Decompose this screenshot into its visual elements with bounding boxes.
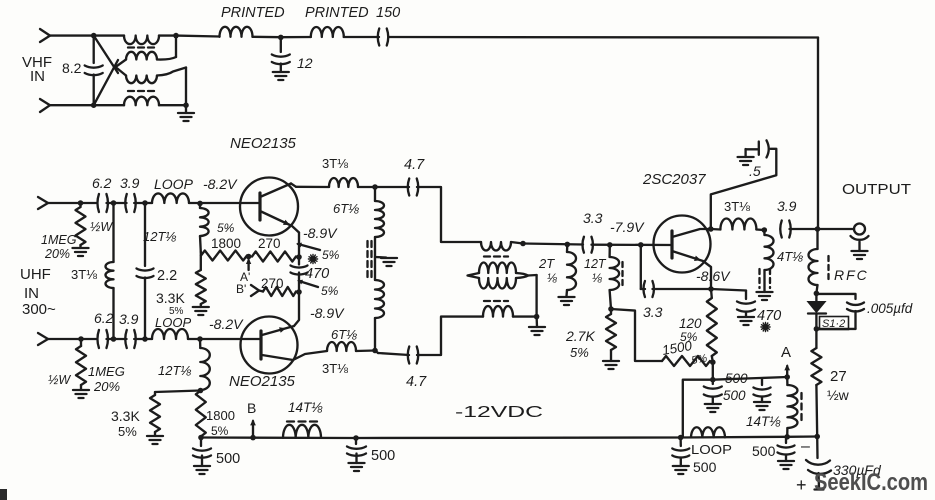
capacitor 500 right [785,437,787,443]
svg-text:500: 500 [216,451,240,467]
wire 3.9 to LOOP lower [134,338,152,340]
svg-text:3.9: 3.9 [120,175,140,191]
svg-text:-8.2V: -8.2V [203,176,238,192]
wire top input lower lead [50,104,124,106]
svg-text:NEO2135: NEO2135 [230,135,297,152]
capacitor 470 emitter rail [291,266,308,268]
svg-text:12T: 12T [584,257,607,271]
capacitor 3.9 series lower [125,330,127,348]
svg-text:6.2: 6.2 [94,310,114,326]
wire UHF upper lead [48,202,96,204]
svg-text:470: 470 [305,266,329,282]
ground 500 loop [673,466,689,474]
core dashes balun bottom [128,90,154,92]
terminal UHF input lower [38,333,48,345]
wire right vertical drop to output node [817,38,819,230]
wire top line to printed inductor [176,34,220,37]
core dashes 6T pair [366,241,368,278]
svg-text:-8.6V: -8.6V [696,268,731,284]
capacitor 3.3 series interstage [582,237,584,253]
inductor LOOP lower [152,329,188,339]
svg-text:⅛: ⅛ [547,271,557,285]
inductor balun middle winding pair T1 [116,60,127,76]
wire balun cross diagonal 1 [94,36,118,73]
ground R 1MEG upper [79,245,81,248]
wire T2 bottom right [513,315,537,317]
svg-text:12T⅛: 12T⅛ [143,229,176,244]
svg-text:12T⅛: 12T⅛ [158,363,191,378]
wire T2 top right [511,242,523,244]
svg-text:LOOP: LOOP [154,176,194,192]
resistor 27 1/2w [815,329,817,348]
svg-text:PRINTED: PRINTED [221,5,285,21]
asterisk output [761,322,770,331]
node junction 330 top [814,434,820,440]
wire .5 cap slant to collector [711,149,777,229]
svg-text:270: 270 [261,276,284,291]
svg-text:3T⅛: 3T⅛ [322,361,348,376]
svg-text:S1·2: S1·2 [822,318,845,330]
wire Q1 emitter rail upper [298,233,300,258]
svg-text:IN: IN [30,68,45,85]
node junction 3T1/8 bottom [111,336,117,342]
svg-text:1MEG: 1MEG [88,364,125,379]
node junction diode top [814,291,820,297]
inductor 3T1/8 output [711,228,721,231]
ground 2T1/8 [565,290,568,296]
svg-text:.005µfd: .005µfd [867,301,913,316]
wire 3.9 to output node [790,228,855,230]
node junction emitter rail / 270 top [296,254,302,260]
resistor 1800 feedback upper [201,251,247,261]
wire top input upper lead [50,34,124,36]
ground cap 12 [273,72,289,80]
inductor T2 middle winding pair [468,273,480,278]
node junction lower out [372,348,378,354]
wire 4.7 lower to T2 [417,317,483,355]
node junction bottom 500 mid [353,435,359,441]
terminal VHF input lower [40,99,50,112]
resistor 2.7K [610,309,612,314]
svg-text:20%: 20% [44,247,70,261]
inductor 6T1/8 upper [374,187,376,201]
wire 6T mid rail [374,237,376,280]
svg-text:-8.2V: -8.2V [209,316,244,332]
test point A arrow [786,366,788,376]
svg-text:1800: 1800 [211,236,241,251]
svg-text:5%: 5% [217,221,235,235]
wire 4.7 upper to T2 [417,187,481,242]
node junction base feedback [638,242,644,248]
svg-text:150: 150 [376,5,400,21]
svg-text:300~: 300~ [22,301,56,318]
ground 4T1/8 [757,292,773,300]
svg-text:2SC2037: 2SC2037 [642,171,706,188]
inductor 2T1/8 [566,244,569,252]
capacitor 330uFd electrolytic [816,437,819,459]
svg-text:14T⅛: 14T⅛ [288,400,323,415]
resistor 3.3K lower [154,392,156,395]
svg-text:120: 120 [679,316,702,331]
wire 6.2-3.9 lower [107,338,127,340]
node junction 12T1/8 lower tap [197,336,203,342]
ground 500 bottom mid [349,463,365,471]
svg-text:3T⅛: 3T⅛ [724,199,750,214]
wire to cap pair-2 and A node [713,377,787,380]
ground 2.7K [610,350,612,361]
wire balun top-right [159,34,176,36]
capacitor 500 pair-1 [712,380,714,384]
svg-text:500: 500 [371,448,395,464]
svg-text:470: 470 [757,308,781,324]
inductor 12T1/8 output stage [608,245,611,257]
node junction 12T bottom [198,388,204,394]
core dashes 12T1/8 out [621,262,623,288]
capacitor 3.9 output [780,221,782,238]
svg-text:2T: 2T [538,256,555,271]
resistor 1800 lower [196,391,206,437]
inductor printed line 2 [311,27,344,37]
svg-text:20%: 20% [93,379,120,394]
node junction 12T1/8 upper tap [197,201,203,207]
svg-text:6T⅛: 6T⅛ [333,201,359,216]
wire loop to Q1 base [189,202,259,204]
svg-text:2.2: 2.2 [157,268,177,284]
wire coil to node [358,186,375,188]
svg-text:NEO2135: NEO2135 [229,373,296,390]
core dashes 14T1/8 right [800,393,802,422]
core dashes T2 bottom [484,300,508,302]
core dashes 4T1/8 [758,269,760,288]
svg-text:4T⅛: 4T⅛ [777,249,803,264]
capacitor 3.3 feedback [640,245,642,289]
svg-text:-8.9V: -8.9V [303,225,338,241]
svg-text:500: 500 [752,443,776,459]
capacitor .5 trimmer [738,157,754,165]
wire Q1 collector line [296,186,329,189]
capacitor 3.9 series upper [125,194,127,212]
svg-text:4.7: 4.7 [406,374,427,390]
node junction emitter rail / 270 bottom [296,289,302,295]
svg-text:LOOP: LOOP [155,315,191,330]
wire 3.9 to LOOP coil [134,202,152,204]
capacitor 8.2 input shunt [93,36,95,63]
capacitor 6.2 series upper [97,194,99,212]
svg-text:4.7: 4.7 [404,157,425,173]
inductor balun top winding [124,36,159,45]
transistor Q1 NEO2135 [240,178,298,236]
node junction balun ground [183,102,189,108]
svg-text:27: 27 [830,368,847,385]
resistor 1MEG 20% lower [80,339,82,346]
wire 1500 node drop [712,362,714,380]
svg-text:3.3: 3.3 [643,304,663,320]
wire UHF lower lead [48,338,96,340]
capacitor 500 loop node [679,438,682,447]
wire to 3.3K lower [155,391,201,393]
wire 12T to 2.7K node [610,290,611,309]
node junction bottom rail A [784,434,790,440]
inductor printed line 1 [220,27,253,37]
resistor 270 upper [252,252,296,262]
terminal OUTPUT [854,224,865,235]
svg-text:1800: 1800 [206,408,235,423]
wire T2 secondary drop [535,275,537,317]
inductor T2 bottom winding [483,306,513,317]
node junction T2 out [520,241,526,247]
node junction 4T1/8 [762,227,768,233]
node junction output rail [815,226,821,232]
core dashes RFC [827,256,829,281]
node junction R2 top [78,336,84,342]
resistor 120 5% [710,289,713,298]
wire balun bottom-right [159,104,186,106]
ground balun [185,105,187,113]
inductor LOOP upper [152,193,189,203]
wire to cap 150 [344,36,379,38]
node junction Q3 emitter [708,286,714,292]
wire lower coil to node [356,349,375,352]
wire bottom rail [201,436,681,439]
svg-text:500: 500 [693,459,717,475]
svg-text:5%: 5% [321,284,339,298]
inductor T2 top winding [481,242,511,251]
svg-text:3.3K: 3.3K [156,290,185,306]
wire node12 to printed inductor 2 [281,36,311,39]
node junction 2.7K [608,306,614,312]
transistor Q3 2SC2037 [654,216,711,273]
svg-text:UHF: UHF [20,266,51,283]
svg-text:B': B' [236,282,246,296]
capacitor 12 shunt [280,37,282,52]
svg-text:-12VDC: -12VDC [455,404,543,421]
node junction lower input [91,102,97,108]
ground 3.3K lower [154,432,156,436]
box S1-2 [820,317,849,330]
wire left drop to bottom rail [683,380,713,438]
node junction upper out [372,184,378,190]
node junction 12T1/8 out tap [607,242,613,248]
svg-text:+: + [796,475,807,495]
node junction diode bottom [814,326,820,332]
inductor 3T1/8 upper out [329,178,358,187]
inductor LOOP bottom right [691,427,725,437]
inductor 6T1/8 lower [375,280,384,318]
svg-text:½W: ½W [48,373,71,387]
test point B arrow [250,435,256,441]
svg-text:500: 500 [723,388,746,403]
test point A' arrow [247,260,249,270]
wire balun ground drop [185,68,187,106]
node junction 2.2 top [142,200,148,206]
inductor 14T1/8 bottom [283,425,321,438]
capacitor 150 series [378,29,380,46]
core dashes T2 top [484,255,508,257]
pointer arrow 5% lower [299,281,318,287]
inductor 12T1/8 upper stage [199,203,201,208]
inductor balun bottom winding [124,97,159,106]
ground 500 pair-2 [754,402,770,410]
node junction bottom rail left [198,435,204,441]
svg-text:3.3: 3.3 [583,210,603,226]
capacitor 4.7 upper [375,186,409,188]
svg-text:3.9: 3.9 [119,311,139,327]
capacitor 6.2 series lower [97,330,99,348]
resistor 1MEG 20% upper [79,203,81,207]
core dashes balun top [128,46,154,48]
inductor 14T1/8 right [786,377,789,385]
svg-text:3.9: 3.9 [777,198,797,214]
resistor 270 lower [259,291,263,292]
wire 6.2 to 3.9 [107,202,127,204]
capacitor 470 output emitter [711,289,746,291]
ground T2 [535,317,538,327]
wire loop to Q2 base [188,338,260,340]
node junction 500 pair [710,377,716,383]
wire 3.3 to base node [592,244,673,247]
wire feedback cap to emitter [653,288,712,290]
node junction cap 12 [278,35,284,41]
wire coil to 4T node [756,228,764,231]
inductor 3T1/8 interbase [112,203,114,262]
svg-text:12: 12 [297,55,313,71]
svg-text:PRINTED: PRINTED [305,5,369,21]
svg-text:SeekIC.com: SeekIC.com [814,469,928,496]
svg-text:A: A [781,344,791,361]
node junction upper input [91,33,97,39]
inductor 3T1/8 lower out [327,342,356,351]
node junction 2T1/8 tap [565,242,571,248]
svg-text:–: – [801,438,810,455]
node junction A' tap [246,254,252,260]
diode S1-2 zener [815,293,817,301]
svg-text:.5: .5 [749,163,761,179]
wire T2 to 3.3 cap [523,244,583,245]
svg-text:LOOP: LOOP [691,442,732,457]
capacitor 2.2 interbase [144,203,146,266]
ground R 1MEG lower [80,385,82,389]
svg-text:1MEG: 1MEG [41,233,77,247]
inductor RFC [816,229,818,249]
node junction R1 top [78,200,84,206]
inductor 4T1/8 [763,230,766,235]
svg-text:B: B [247,400,256,416]
node junction balun output [173,33,179,39]
ground 500 pair-1 [705,404,721,412]
svg-text:IN: IN [24,285,39,302]
capacitor 4.7 lower [375,351,378,354]
svg-text:½W: ½W [90,220,113,234]
node junction 3T1/8 top [111,200,117,206]
terminal UHF input upper [38,197,48,209]
ground 500 bottom left [194,466,210,474]
wire top long to right edge [389,36,819,39]
resistor 1500 5% [662,356,710,366]
svg-text:5%: 5% [322,248,340,262]
svg-text:OUTPUT: OUTPUT [842,181,911,198]
svg-text:5%: 5% [118,424,137,439]
svg-text:270: 270 [258,236,281,251]
ground tap mid [375,256,386,259]
node junction bottom rail loop [678,435,684,441]
wire emitter rail to Q2 [294,292,299,326]
svg-text:8.2: 8.2 [62,60,82,76]
transistor Q2 NEO2135 [241,317,298,374]
wire RFC to diode node [816,285,817,293]
capacitor .005ufd [816,294,855,299]
resistor 3.3K upper [200,252,202,270]
wire 6T to lower node [374,318,376,351]
svg-text:½w: ½w [827,387,850,403]
terminal VHF input upper [40,29,50,42]
svg-text:-8.9V: -8.9V [310,305,345,321]
svg-text:5%: 5% [570,345,589,360]
wire bottom rail right [681,437,818,438]
node junction Q3 collector [708,226,714,232]
capacitor 500 bottom mid [355,438,357,444]
svg-text:RFC: RFC [834,267,869,283]
svg-text:⅛: ⅛ [592,271,602,285]
svg-text:3T⅛: 3T⅛ [71,267,97,282]
svg-text:6T⅛: 6T⅛ [331,327,357,342]
svg-text:3T⅛: 3T⅛ [322,156,348,171]
svg-text:5%: 5% [211,424,229,438]
svg-text:14T⅛: 14T⅛ [746,414,781,429]
inductor 12T1/8 lower stage [199,339,202,348]
node junction 120/1500 [710,359,716,365]
ground 470 output [738,317,754,325]
wire balun cross diagonal 2 [94,60,118,105]
corner mark [0,489,7,500]
capacitor 500 pair-2 [761,379,763,385]
core dashes 14T1/8 bottom [287,420,317,422]
test point B' arrow [251,285,259,296]
wire 2.7K node to 1500 [611,309,662,361]
svg-text:3.3K: 3.3K [111,408,140,424]
node junction 2.2 bottom [142,336,148,342]
svg-text:2.7K: 2.7K [565,328,595,344]
wire emitter rail mid [298,257,300,265]
node junction T2 ground [534,314,540,320]
wire balun right vertical tap [175,36,177,57]
node junction A [784,374,790,380]
capacitor 500 bottom left [200,438,202,447]
ground 3.3K upper [200,304,202,307]
ground 500 right [778,461,794,469]
wire to node 12 [253,36,281,39]
svg-text:6.2: 6.2 [92,175,112,191]
pointer arrow 5% upper [298,244,320,250]
asterisk upper [308,254,317,263]
svg-text:-7.9V: -7.9V [610,219,645,235]
svg-text:5%: 5% [680,330,698,344]
